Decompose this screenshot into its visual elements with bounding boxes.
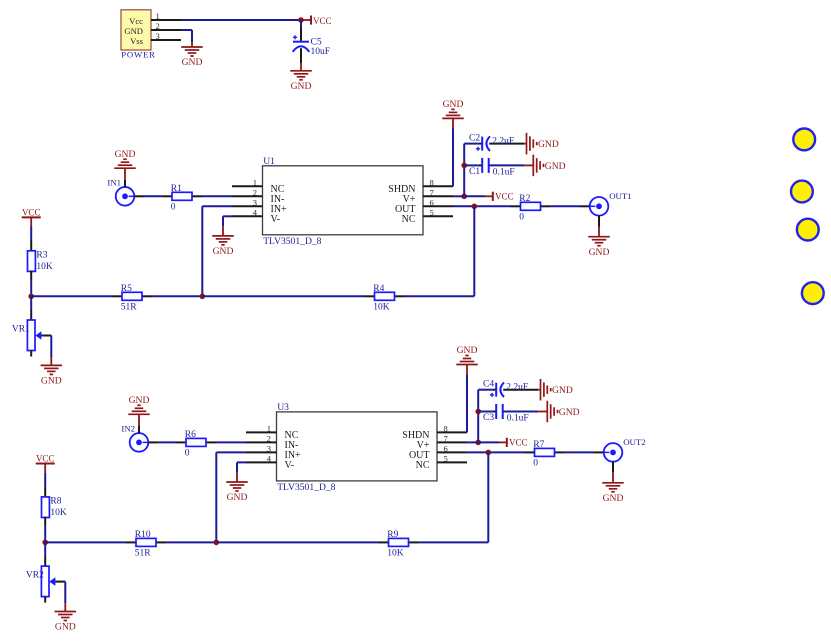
svg-text:10K: 10K — [36, 262, 53, 272]
svg-text:3: 3 — [267, 444, 271, 454]
svg-text:VCC: VCC — [36, 454, 55, 464]
svg-text:1: 1 — [253, 178, 257, 188]
svg-text:R6: R6 — [185, 430, 196, 440]
svg-text:IN2: IN2 — [121, 424, 135, 434]
svg-text:VCC: VCC — [509, 438, 528, 448]
svg-text:VR2: VR2 — [26, 570, 44, 580]
svg-text:GND: GND — [552, 385, 573, 396]
svg-text:8: 8 — [444, 424, 448, 434]
svg-text:2: 2 — [253, 188, 257, 198]
svg-text:NC: NC — [416, 460, 430, 471]
svg-text:GND: GND — [227, 492, 248, 503]
svg-text:3: 3 — [156, 31, 160, 41]
svg-text:VCC: VCC — [22, 208, 41, 218]
svg-text:0: 0 — [171, 203, 176, 213]
svg-text:GND: GND — [603, 493, 624, 504]
svg-text:R1: R1 — [171, 184, 182, 194]
svg-text:C3: C3 — [483, 413, 494, 423]
svg-text:GND: GND — [213, 246, 234, 257]
svg-text:5: 5 — [444, 454, 448, 464]
svg-text:3: 3 — [253, 198, 257, 208]
svg-text:V-: V- — [271, 214, 281, 225]
svg-text:51R: 51R — [135, 549, 152, 559]
svg-text:0: 0 — [185, 449, 190, 459]
svg-text:VR1: VR1 — [12, 324, 30, 334]
svg-text:0: 0 — [533, 459, 538, 469]
svg-text:C2: C2 — [469, 133, 480, 143]
svg-text:Vss: Vss — [130, 36, 144, 46]
svg-text:GND: GND — [589, 247, 610, 258]
svg-text:R8: R8 — [50, 497, 61, 507]
svg-text:GND: GND — [559, 407, 580, 418]
svg-text:7: 7 — [430, 188, 434, 198]
svg-text:GND: GND — [443, 99, 464, 110]
svg-text:10K: 10K — [50, 508, 67, 518]
svg-text:GND: GND — [538, 139, 559, 150]
svg-text:7: 7 — [444, 434, 448, 444]
svg-text:TLV3501_D_8: TLV3501_D_8 — [277, 482, 335, 493]
svg-text:5: 5 — [430, 208, 434, 218]
svg-text:GND: GND — [115, 149, 136, 160]
svg-text:NC: NC — [402, 214, 416, 225]
svg-text:0.1uF: 0.1uF — [493, 168, 515, 178]
svg-text:VCC: VCC — [313, 16, 332, 26]
svg-text:10uF: 10uF — [311, 47, 331, 57]
svg-text:OUT2: OUT2 — [623, 437, 645, 447]
svg-text:Vcc: Vcc — [129, 16, 143, 26]
svg-text:0.1uF: 0.1uF — [507, 414, 529, 424]
svg-text:6: 6 — [444, 444, 448, 454]
svg-text:GND: GND — [291, 81, 312, 92]
svg-text:0: 0 — [519, 213, 524, 223]
svg-text:8: 8 — [430, 178, 434, 188]
svg-text:POWER: POWER — [121, 49, 155, 59]
svg-text:OUT1: OUT1 — [609, 191, 631, 201]
svg-text:IN1: IN1 — [107, 177, 121, 187]
svg-text:C4: C4 — [483, 380, 494, 390]
svg-text:U1: U1 — [263, 156, 275, 167]
svg-text:6: 6 — [430, 198, 434, 208]
svg-text:R5: R5 — [121, 284, 132, 294]
svg-text:TLV3501_D_8: TLV3501_D_8 — [263, 236, 321, 247]
svg-text:R10: R10 — [135, 530, 151, 540]
svg-text:R4: R4 — [373, 284, 384, 294]
svg-text:R7: R7 — [533, 440, 544, 450]
svg-text:GND: GND — [457, 345, 478, 356]
svg-text:GND: GND — [545, 161, 566, 172]
svg-text:R9: R9 — [387, 530, 398, 540]
svg-text:2: 2 — [156, 21, 160, 31]
svg-text:1: 1 — [156, 11, 160, 21]
svg-text:C1: C1 — [469, 167, 480, 177]
svg-text:GND: GND — [55, 622, 76, 633]
svg-text:R2: R2 — [519, 194, 530, 204]
svg-text:GND: GND — [182, 57, 203, 68]
svg-text:VCC: VCC — [495, 192, 514, 202]
svg-text:U3: U3 — [277, 402, 289, 413]
svg-text:GND: GND — [124, 26, 143, 36]
svg-text:V-: V- — [285, 460, 295, 471]
svg-text:10K: 10K — [387, 549, 404, 559]
svg-text:R3: R3 — [36, 250, 47, 260]
svg-text:2.2uF: 2.2uF — [506, 383, 528, 393]
svg-text:2.2uF: 2.2uF — [492, 136, 514, 146]
svg-text:1: 1 — [267, 424, 271, 434]
svg-text:GND: GND — [129, 395, 150, 406]
svg-text:51R: 51R — [121, 303, 138, 313]
svg-text:GND: GND — [41, 376, 62, 387]
svg-text:2: 2 — [267, 434, 271, 444]
svg-text:10K: 10K — [373, 303, 390, 313]
